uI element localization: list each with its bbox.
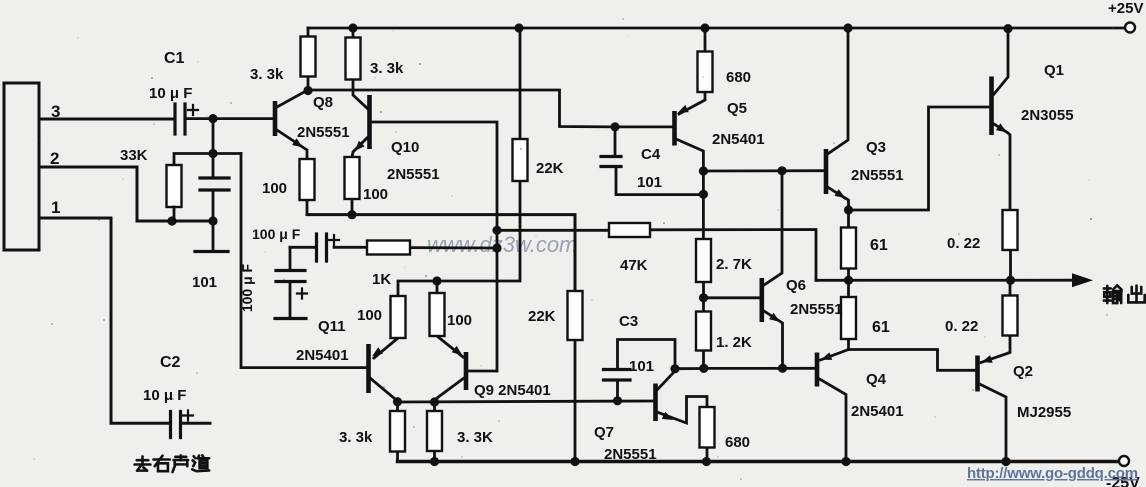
svg-text:Q3: Q3	[866, 139, 886, 156]
svg-text:Q10: Q10	[391, 139, 419, 156]
svg-text:0. 22: 0. 22	[945, 318, 978, 335]
svg-text:1. 2K: 1. 2K	[716, 334, 752, 351]
svg-text:C3: C3	[619, 313, 638, 330]
svg-text:10 μ F: 10 μ F	[143, 387, 186, 404]
svg-text:Q1: Q1	[1044, 62, 1064, 79]
svg-text:2N5401: 2N5401	[296, 347, 349, 364]
svg-text:100: 100	[363, 186, 388, 203]
svg-text:Q9 2N5401: Q9 2N5401	[474, 382, 551, 399]
svg-text:2. 7K: 2. 7K	[716, 256, 752, 273]
svg-text:3. 3k: 3. 3k	[250, 66, 284, 83]
svg-text:2N5551: 2N5551	[604, 446, 657, 463]
svg-text:2N5551: 2N5551	[387, 166, 440, 183]
svg-text:101: 101	[629, 358, 654, 375]
svg-text:C1: C1	[164, 50, 185, 67]
svg-text:MJ2955: MJ2955	[1017, 404, 1071, 421]
svg-text:+25V: +25V	[1108, 0, 1143, 17]
svg-text:Q8: Q8	[313, 94, 333, 111]
svg-text:Q4: Q4	[866, 371, 887, 388]
svg-text:2N5551: 2N5551	[297, 124, 350, 141]
svg-text:100 μ F: 100 μ F	[252, 226, 301, 242]
svg-text:100: 100	[447, 312, 472, 329]
svg-text:Q5: Q5	[727, 100, 747, 117]
svg-text:3. 3k: 3. 3k	[370, 60, 404, 77]
svg-text:http://www.go-gddq.com: http://www.go-gddq.com	[967, 465, 1138, 482]
svg-text:100 μ F: 100 μ F	[239, 263, 255, 312]
svg-text:2N5401: 2N5401	[851, 403, 904, 420]
svg-text:33K: 33K	[120, 147, 148, 164]
svg-text:3. 3K: 3. 3K	[457, 429, 493, 446]
svg-text:1: 1	[51, 198, 60, 217]
svg-text:22K: 22K	[528, 308, 556, 325]
svg-text:www.dz3w.com: www.dz3w.com	[427, 232, 577, 257]
svg-text:101: 101	[637, 174, 662, 191]
svg-text:100: 100	[262, 180, 287, 197]
svg-text:680: 680	[725, 434, 750, 451]
svg-text:10 μ F: 10 μ F	[149, 85, 192, 102]
svg-text:3. 3k: 3. 3k	[339, 429, 373, 446]
svg-text:Q6: Q6	[786, 277, 806, 294]
svg-text:C4: C4	[641, 146, 661, 163]
svg-text:2: 2	[50, 149, 59, 168]
svg-text:2N3055: 2N3055	[1021, 107, 1074, 124]
svg-text:C2: C2	[160, 354, 181, 371]
svg-text:22K: 22K	[536, 160, 564, 177]
svg-text:1K: 1K	[372, 271, 391, 288]
svg-text:2N5401: 2N5401	[712, 131, 765, 148]
svg-text:61: 61	[870, 237, 888, 254]
svg-text:2N5551: 2N5551	[851, 167, 904, 184]
svg-text:0. 22: 0. 22	[947, 235, 980, 252]
svg-text:Q2: Q2	[1013, 363, 1033, 380]
svg-text:680: 680	[726, 69, 751, 86]
svg-text:3: 3	[51, 102, 60, 121]
svg-text:47K: 47K	[620, 257, 648, 274]
svg-text:2N5551: 2N5551	[790, 301, 843, 318]
svg-text:Q7: Q7	[594, 424, 614, 441]
svg-text:61: 61	[872, 319, 890, 336]
svg-text:Q11: Q11	[318, 318, 346, 335]
svg-text:100: 100	[357, 307, 382, 324]
